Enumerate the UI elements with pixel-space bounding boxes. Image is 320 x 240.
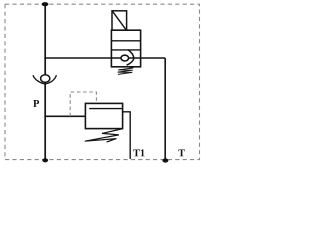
check valve CV1 on P line (33, 75, 56, 84)
svg-text:T: T (178, 148, 185, 159)
node: T port junction dot (162, 158, 168, 162)
wire: P line vertical (44, 4, 46, 160)
solenoid valve V1: return spring (118, 67, 134, 75)
wire: branch from P line to RV1 (y=116) (44, 115, 85, 117)
wire: branch to valve V1 and T line (y=58) (44, 57, 165, 59)
wire: RV1 outlet to T1 (123, 112, 131, 159)
svg-text:P: P (33, 99, 40, 110)
node: bottom port junction dot (42, 158, 48, 162)
node: top port junction dot (42, 2, 49, 6)
solenoid valve V1: solenoid actuator box with diagonal (112, 11, 127, 30)
pilot line (dashed) to RV1 top (70, 92, 96, 116)
wire: T line vertical (164, 58, 166, 160)
solenoid valve V1: body (2-position boxes) (111, 30, 140, 67)
manifold envelope (dashed boundary) (5, 4, 200, 159)
relief valve RV1: body box (85, 103, 122, 128)
relief valve RV1: spring (85, 129, 122, 142)
relief valve RV1: internal element line (89, 108, 122, 110)
svg-text:T1: T1 (133, 148, 145, 159)
solenoid valve V1: poppet check (ball and seat) (121, 50, 134, 65)
